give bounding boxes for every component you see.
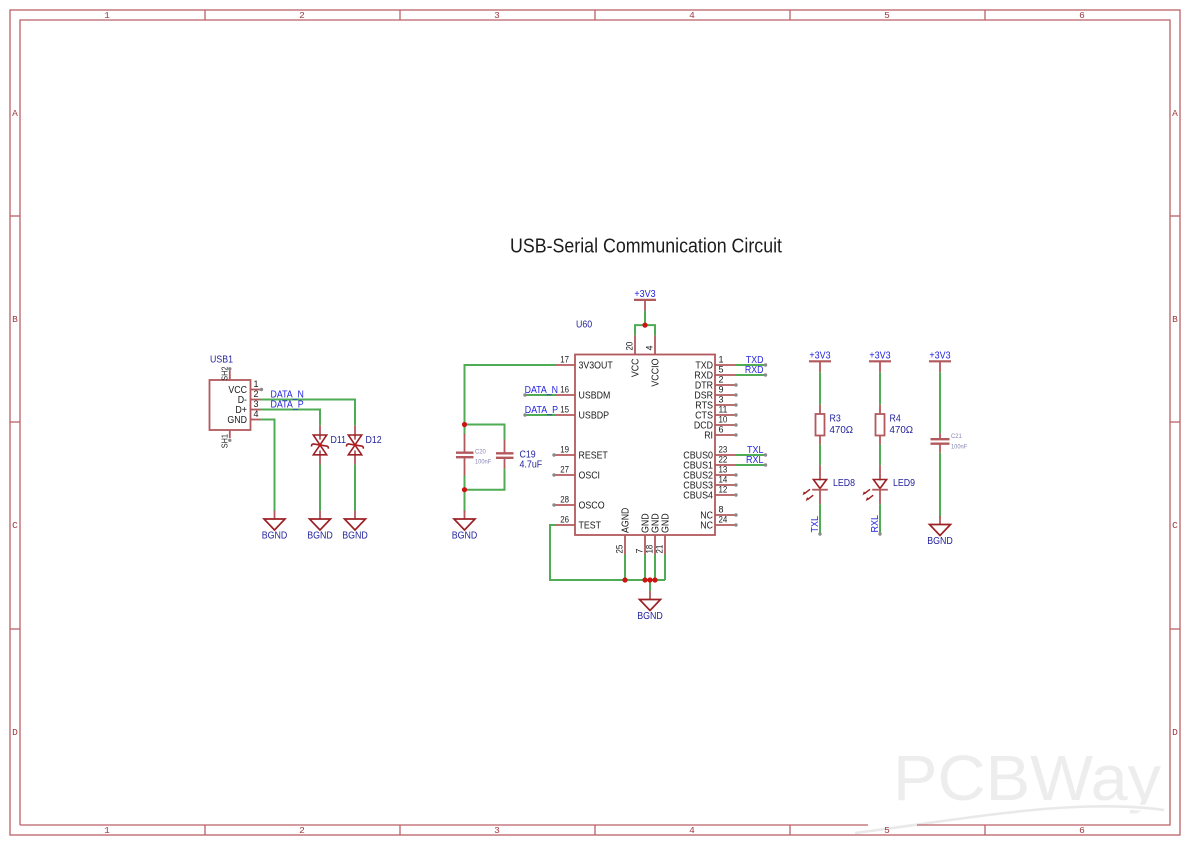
- svg-text:17: 17: [560, 355, 569, 365]
- svg-text:21: 21: [655, 545, 665, 554]
- svg-text:22: 22: [719, 455, 728, 465]
- U60 pin 19 RESET: [552, 445, 608, 462]
- svg-text:B: B: [12, 314, 18, 325]
- ground BGND under C21: [927, 516, 953, 547]
- svg-text:470Ω: 470Ω: [890, 425, 914, 436]
- wire bus to BGND: [649, 580, 651, 591]
- wire net DATA_N at U60 pin16: [523, 393, 555, 396]
- U60 pin 23 CBUS0: [683, 445, 735, 462]
- wire net TXL at U60: [735, 453, 767, 456]
- wire GND pin18 down: [654, 555, 656, 581]
- U60 pin 20 VCC: [625, 335, 642, 377]
- svg-text:5: 5: [719, 365, 724, 375]
- wire net TXL below LED8: [818, 504, 821, 536]
- U60 pin 24 NC: [700, 515, 737, 532]
- USB1 pin 2 D-: [238, 389, 261, 406]
- U60 pin 10 DCD: [694, 415, 738, 432]
- USB1 pin 1 VCC: [228, 379, 263, 396]
- svg-text:24: 24: [719, 515, 728, 525]
- U60 pin 2 DTR: [695, 375, 738, 392]
- svg-text:NC: NC: [700, 521, 713, 532]
- junction C20 top: [462, 422, 467, 427]
- IC U60 body: [575, 355, 715, 536]
- svg-text:1: 1: [254, 379, 259, 389]
- svg-text:11: 11: [719, 405, 728, 415]
- svg-text:18: 18: [645, 545, 655, 554]
- svg-text:D12: D12: [366, 435, 383, 446]
- svg-text:GND: GND: [227, 415, 247, 426]
- U60 pin 14 CBUS3: [683, 475, 737, 492]
- wire to VCC VCCIO pins: [635, 325, 655, 335]
- svg-text:15: 15: [560, 405, 569, 415]
- PCBWay watermark: [855, 742, 1164, 833]
- wire R4 to LED9: [879, 444, 881, 465]
- svg-text:A: A: [1172, 108, 1178, 119]
- capacitor C20: [456, 434, 491, 476]
- resistor R4: [876, 405, 914, 445]
- svg-text:TEST: TEST: [579, 521, 602, 532]
- junction pin18 bus: [652, 577, 657, 582]
- svg-text:+3V3: +3V3: [929, 350, 951, 361]
- svg-text:BGND: BGND: [927, 536, 953, 547]
- ground BGND under D11: [307, 511, 333, 542]
- svg-text:+3V3: +3V3: [869, 350, 891, 361]
- LED LED9: [863, 465, 916, 504]
- svg-text:3: 3: [494, 825, 500, 836]
- USB1 pin 3 D+: [235, 399, 260, 416]
- svg-text:+3V3: +3V3: [809, 350, 831, 361]
- ground BGND under USB1: [262, 511, 288, 542]
- wire D12 cathode down: [354, 464, 356, 510]
- U60 pin 17 3V3OUT: [555, 355, 613, 372]
- svg-text:VCCIO: VCCIO: [651, 358, 662, 386]
- U60 pin 15 USBDP: [555, 405, 609, 422]
- svg-text:19: 19: [560, 445, 569, 455]
- svg-text:USBDP: USBDP: [579, 411, 610, 422]
- power +3V3 above R3: [809, 350, 831, 372]
- svg-text:5: 5: [884, 10, 890, 21]
- svg-text:U60: U60: [576, 320, 593, 331]
- svg-text:OSCI: OSCI: [579, 471, 601, 482]
- svg-text:4: 4: [689, 825, 695, 836]
- U60 pin 6 RI: [704, 425, 738, 442]
- svg-text:RXD: RXD: [745, 365, 764, 376]
- svg-text:25: 25: [615, 545, 625, 554]
- diode D11: [311, 425, 346, 464]
- svg-text:RI: RI: [704, 431, 713, 442]
- svg-text:RXL: RXL: [870, 515, 881, 533]
- connector USB1 body: [210, 380, 251, 430]
- U60 pin 22 CBUS1: [683, 455, 735, 472]
- svg-text:DATA_P: DATA_P: [525, 405, 558, 416]
- svg-text:1: 1: [719, 355, 724, 365]
- U60 pin 3 RTS: [695, 395, 737, 412]
- wire GND pin21 down: [664, 555, 666, 581]
- diode D12: [346, 425, 382, 464]
- power +3V3 above R4: [869, 350, 891, 372]
- svg-text:BGND: BGND: [262, 531, 288, 542]
- wire C20 bottom down to BGND: [464, 476, 466, 513]
- wire AGND pin25 down: [624, 555, 626, 581]
- svg-text:1: 1: [104, 10, 110, 21]
- junction BGND stem: [647, 577, 652, 582]
- svg-text:SH1: SH1: [220, 434, 229, 449]
- wire +3V3 to C21: [939, 372, 941, 433]
- svg-text:9: 9: [719, 385, 724, 395]
- svg-text:LED9: LED9: [893, 478, 915, 489]
- wire net RXD at U60: [735, 373, 767, 376]
- svg-text:14: 14: [719, 475, 728, 485]
- U60 pin 9 DSR: [694, 385, 737, 402]
- junction +3V3: [642, 323, 647, 328]
- svg-text:1: 1: [104, 825, 110, 836]
- border row letters: [12, 108, 1178, 738]
- USB1 pin SH2: [220, 366, 231, 381]
- U60 pin 4 VCCIO: [645, 335, 662, 386]
- wire USB1 pin4 GND down: [261, 420, 275, 511]
- wire U60 pin17 to C20: [465, 365, 556, 425]
- U60 pin 25 AGND: [615, 508, 632, 555]
- svg-text:100nF: 100nF: [475, 459, 491, 466]
- capacitor C19: [496, 440, 542, 471]
- svg-text:6: 6: [719, 425, 724, 435]
- svg-text:3: 3: [254, 399, 259, 409]
- junction pin25 bus: [622, 577, 627, 582]
- wire +3V3 to R3: [819, 372, 821, 404]
- svg-text:DATA_N: DATA_N: [525, 385, 558, 396]
- svg-text:10: 10: [719, 415, 728, 425]
- junction pin7 bus: [642, 577, 647, 582]
- ground BGND under C20: [452, 511, 478, 542]
- svg-text:R3: R3: [830, 414, 842, 425]
- svg-text:GND: GND: [661, 513, 672, 533]
- svg-text:6: 6: [1079, 10, 1085, 21]
- svg-text:BGND: BGND: [342, 531, 368, 542]
- svg-text:16: 16: [560, 385, 569, 395]
- svg-text:8: 8: [719, 505, 724, 515]
- svg-text:BGND: BGND: [637, 611, 663, 622]
- svg-text:BGND: BGND: [307, 531, 333, 542]
- svg-text:C: C: [12, 520, 18, 531]
- wire net DATA_N from USB1 pin2 to D12: [261, 400, 356, 426]
- wire ground bus: [625, 579, 665, 581]
- svg-text:6: 6: [1079, 825, 1085, 836]
- svg-text:RXL: RXL: [746, 455, 764, 466]
- svg-text:4: 4: [645, 345, 655, 350]
- svg-text:4: 4: [689, 10, 695, 21]
- U60 pin 18 GND: [645, 513, 662, 554]
- U60 pin 11 CTS: [695, 405, 738, 422]
- wire net DATA_P at U60 pin15: [523, 413, 555, 416]
- svg-text:D11: D11: [331, 435, 347, 446]
- USB1 pin 4 GND: [227, 409, 260, 426]
- svg-text:2: 2: [254, 389, 259, 399]
- svg-text:VCC: VCC: [631, 359, 642, 378]
- power +3V3 above C21: [929, 350, 951, 372]
- svg-text:2: 2: [719, 375, 724, 385]
- svg-text:C20: C20: [475, 449, 486, 456]
- svg-text:26: 26: [560, 515, 569, 525]
- svg-text:C21: C21: [951, 433, 962, 440]
- ground BGND under U60: [637, 591, 663, 622]
- svg-text:2: 2: [299, 10, 305, 21]
- U60 pin 21 GND: [655, 513, 672, 554]
- svg-text:B: B: [1172, 314, 1178, 325]
- svg-text:3: 3: [719, 395, 724, 405]
- ground BGND under D12: [342, 511, 368, 542]
- USB1 pin SH1: [220, 430, 231, 448]
- U60 pin 7 GND: [635, 513, 652, 554]
- wire D11 cathode down: [319, 464, 321, 510]
- wire +3V3 to R4: [879, 372, 881, 404]
- svg-text:USBDM: USBDM: [579, 391, 611, 402]
- svg-text:2: 2: [299, 825, 305, 836]
- svg-text:23: 23: [719, 445, 728, 455]
- U60 pin 26 TEST: [555, 515, 601, 532]
- svg-text:+3V3: +3V3: [634, 289, 656, 300]
- svg-text:27: 27: [560, 465, 569, 475]
- svg-text:C: C: [1172, 520, 1178, 531]
- wire net TXD at U60: [735, 363, 767, 366]
- svg-text:A: A: [12, 108, 18, 119]
- U60 pin 16 USBDM: [555, 385, 610, 402]
- U60 pin 5 RXD: [694, 365, 735, 382]
- svg-text:100nF: 100nF: [951, 444, 967, 451]
- svg-text:BGND: BGND: [452, 531, 478, 542]
- svg-text:USB-Serial Communication Circu: USB-Serial Communication Circuit: [510, 234, 782, 257]
- svg-text:LED8: LED8: [833, 478, 855, 489]
- svg-text:12: 12: [719, 485, 728, 495]
- wire R3 to LED8: [819, 444, 821, 465]
- U60 pin 27 OSCI: [552, 465, 600, 482]
- svg-text:TXL: TXL: [810, 516, 821, 533]
- svg-text:7: 7: [635, 548, 645, 553]
- U60 pin 13 CBUS2: [683, 465, 737, 482]
- svg-text:3V3OUT: 3V3OUT: [579, 361, 613, 372]
- svg-text:13: 13: [719, 465, 728, 475]
- wire C20 top to C19 top: [465, 425, 505, 440]
- U60 pin 12 CBUS4: [683, 485, 737, 502]
- wire net RXL at U60: [735, 463, 767, 466]
- svg-text:SH2: SH2: [220, 366, 229, 381]
- svg-text:470Ω: 470Ω: [830, 425, 854, 436]
- LED LED8: [803, 465, 856, 504]
- junction C20 bottom: [462, 487, 467, 492]
- svg-text:DATA_P: DATA_P: [271, 399, 304, 410]
- wire C19 bottom to C20 bottom: [465, 469, 505, 490]
- svg-text:4.7uF: 4.7uF: [520, 460, 543, 471]
- wire TEST pin26 to ground bus: [550, 525, 625, 580]
- svg-text:OSCO: OSCO: [579, 501, 605, 512]
- svg-text:PCBWay: PCBWay: [893, 742, 1161, 814]
- wire GND pin7 down: [644, 555, 646, 581]
- U60 pin 28 OSCO: [552, 495, 604, 512]
- svg-text:RESET: RESET: [579, 451, 608, 462]
- power +3V3 above U60: [634, 289, 656, 311]
- wire net RXL below LED9: [878, 504, 881, 536]
- svg-text:D: D: [1172, 727, 1178, 738]
- capacitor C21: [931, 433, 968, 453]
- resistor R3: [816, 405, 854, 445]
- svg-text:5: 5: [884, 825, 890, 836]
- wire net DATA_P from USB1 pin3 to D11: [261, 410, 321, 426]
- svg-text:4: 4: [254, 409, 259, 419]
- U60 pin 1 TXD: [695, 355, 735, 372]
- svg-text:20: 20: [625, 342, 635, 351]
- svg-text:CBUS4: CBUS4: [683, 491, 713, 502]
- svg-text:D: D: [12, 727, 18, 738]
- svg-text:R4: R4: [890, 414, 902, 425]
- svg-text:3: 3: [494, 10, 500, 21]
- svg-text:28: 28: [560, 495, 569, 505]
- wire +3V3 stem: [644, 311, 646, 325]
- svg-text:USB1: USB1: [210, 355, 233, 366]
- wire C21 to BGND: [939, 453, 941, 518]
- svg-text:AGND: AGND: [621, 508, 632, 533]
- U60 pin 8 NC: [700, 505, 737, 522]
